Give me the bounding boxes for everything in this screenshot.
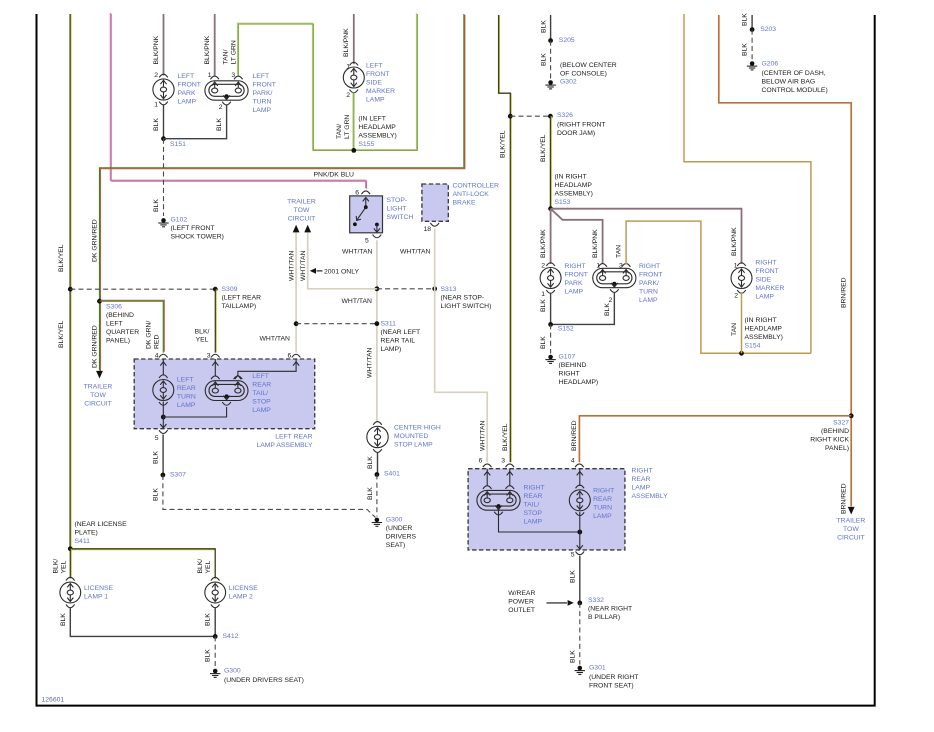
svg-text:DRIVERS: DRIVERS — [386, 533, 417, 540]
wire BLK/PNK to left front side marker pin 1 — [353, 14, 355, 64]
splice S152 dot — [548, 322, 553, 327]
svg-text:TAN: TAN — [731, 323, 738, 336]
svg-text:(UNDER DRIVERS SEAT): (UNDER DRIVERS SEAT) — [224, 677, 304, 684]
svg-text:(IN RIGHT: (IN RIGHT — [555, 173, 587, 180]
trailer tow circuit arrow left — [96, 371, 103, 379]
svg-text:PNK/DK BLU: PNK/DK BLU — [314, 172, 355, 179]
svg-text:S411: S411 — [75, 538, 91, 545]
svg-text:RIGHT: RIGHT — [632, 467, 653, 474]
svg-text:DK GRN/RED: DK GRN/RED — [92, 219, 99, 262]
svg-text:TAN/: TAN/ — [223, 49, 230, 64]
svg-text:(UNDER RIGHT: (UNDER RIGHT — [589, 674, 638, 681]
left rear lamp assembly box (dashed) — [134, 359, 315, 429]
svg-text:HEADLAMP: HEADLAMP — [358, 124, 396, 131]
svg-text:BLK/PNK: BLK/PNK — [343, 28, 350, 57]
svg-text:LICENSE: LICENSE — [229, 585, 259, 592]
wire BLK center stop lamp to S401 — [377, 452, 379, 474]
junction dot BLK/YEL S326 link — [508, 114, 513, 119]
svg-text:LAMP: LAMP — [524, 518, 543, 525]
wire WHT/TAN controller pin18 through S313 to right rear pin 6 — [435, 228, 488, 462]
svg-text:LAMP: LAMP — [755, 293, 774, 300]
svg-text:DOOR JAM): DOOR JAM) — [557, 130, 595, 137]
svg-text:FRONT: FRONT — [755, 268, 778, 275]
svg-text:POWER: POWER — [508, 599, 534, 606]
wire BLK to S203 — [751, 15, 753, 30]
svg-text:G102: G102 — [171, 216, 188, 223]
splice S332 dot — [577, 601, 582, 606]
svg-text:BLK/: BLK/ — [197, 559, 204, 574]
junction on BLK/YEL at tail feed — [68, 287, 73, 292]
svg-text:HEADLAMP): HEADLAMP) — [559, 379, 599, 386]
svg-text:RIGHT: RIGHT — [524, 484, 545, 491]
svg-text:HEADLAMP: HEADLAMP — [555, 182, 593, 189]
wire BLK right park pin 1 to S152 — [550, 293, 552, 325]
pin 4 internal wire — [162, 359, 164, 376]
svg-text:W/REAR: W/REAR — [508, 590, 535, 597]
pin 3 internal wire — [509, 469, 511, 486]
svg-text:S326: S326 — [557, 112, 573, 119]
svg-text:TRAILER: TRAILER — [837, 518, 866, 525]
lamp right rear turn lamp — [576, 485, 585, 488]
dashed BLK S307 to ground G300 route — [163, 475, 376, 518]
wire BLK from park lamp pin 1 to S151 — [163, 105, 165, 139]
svg-text:BLK: BLK — [540, 53, 547, 66]
svg-text:REAR: REAR — [177, 385, 196, 392]
svg-text:OUTLET: OUTLET — [508, 607, 535, 614]
svg-text:BELOW AIR BAG: BELOW AIR BAG — [762, 78, 816, 85]
wire BLK right front lamps to S152 — [551, 293, 615, 325]
svg-text:LAMP: LAMP — [366, 97, 385, 104]
svg-text:S313: S313 — [441, 286, 457, 293]
svg-text:BLK/YEL: BLK/YEL — [58, 320, 65, 348]
wire BLK/YEL left feed vertical — [70, 14, 72, 549]
dashed link from BLK/YEL to S309 — [70, 288, 215, 290]
svg-text:PLATE): PLATE) — [75, 530, 98, 537]
svg-text:BLK/PNK: BLK/PNK — [731, 227, 738, 256]
svg-text:ASSEMBLY): ASSEMBLY) — [358, 133, 396, 140]
svg-text:S327: S327 — [833, 419, 849, 426]
wire BLK/PNK S153 to right front park lamp pin 2 — [550, 209, 552, 264]
svg-text:FRONT: FRONT — [366, 71, 389, 78]
svg-text:ASSEMBLY): ASSEMBLY) — [745, 334, 783, 341]
svg-text:DK GRN/RED: DK GRN/RED — [92, 325, 99, 368]
wire BRN/RED S327 to right rear pin 4 — [579, 416, 851, 463]
right rear lamp assembly box (dashed) — [468, 469, 625, 550]
wire BLK/PNK S153 to right front side marker pin 1 — [551, 209, 742, 264]
wire BLK/YEL S411 to license lamp 2 — [70, 550, 215, 580]
svg-text:SHOCK TOWER): SHOCK TOWER) — [171, 233, 224, 240]
wire BLK to S205 — [550, 15, 552, 41]
svg-text:BRAKE: BRAKE — [453, 199, 477, 206]
svg-text:CENTER HIGH: CENTER HIGH — [394, 425, 441, 432]
svg-text:BLK/YEL: BLK/YEL — [58, 244, 65, 272]
pin 6 internal wire to tail/stop right filament — [238, 359, 296, 377]
svg-text:S309: S309 — [222, 286, 238, 293]
wire TAN right front park/turn pin3 run to S154 — [626, 221, 811, 353]
svg-text:(NEAR STOP-: (NEAR STOP- — [441, 294, 485, 301]
ground G206 — [750, 61, 755, 66]
pin 6 connector arc left rear assembly — [292, 354, 301, 357]
svg-text:REAR TAIL: REAR TAIL — [381, 338, 416, 345]
pin 3 connector arc left rear assembly — [211, 354, 220, 357]
svg-text:2: 2 — [346, 92, 350, 99]
svg-text:LAMP: LAMP — [178, 99, 197, 106]
wire DK GRN/RED from S306 to left rear lamp pin 4 — [101, 300, 165, 351]
svg-text:BLK: BLK — [153, 118, 160, 131]
trailer tow arrows (middle) — [293, 225, 300, 233]
dashed link to S326 — [510, 115, 550, 117]
svg-text:BLK: BLK — [153, 199, 160, 212]
svg-text:WHT/TAN: WHT/TAN — [400, 248, 431, 255]
lamp left rear tail/stop dual filament — [205, 381, 248, 401]
svg-text:REAR: REAR — [632, 476, 651, 483]
pin 4 internal wire — [579, 469, 581, 486]
wire BLK/PNK S153 to right front park/turn pin 1 — [551, 209, 603, 264]
svg-text:TURN: TURN — [593, 504, 612, 511]
junction dot WHT/TAN at dashed crossing — [375, 286, 380, 291]
svg-text:YEL: YEL — [196, 337, 209, 344]
svg-text:2: 2 — [734, 293, 738, 300]
svg-text:FRONT SEAT): FRONT SEAT) — [589, 683, 634, 690]
svg-text:PARK: PARK — [565, 280, 583, 287]
svg-text:FRONT: FRONT — [565, 271, 588, 278]
svg-text:TAILLAMP): TAILLAMP) — [222, 303, 257, 310]
svg-text:TURN: TURN — [639, 288, 658, 295]
svg-text:S311: S311 — [381, 321, 397, 328]
lamp license lamp 1 — [66, 577, 75, 580]
svg-text:MARKER: MARKER — [755, 285, 784, 292]
ground G302 — [548, 80, 553, 85]
svg-text:SIDE: SIDE — [366, 80, 382, 87]
svg-text:RIGHT: RIGHT — [559, 371, 580, 378]
internal wire junction to pin 5 — [162, 402, 164, 429]
pin 4 connector arc left rear assembly — [159, 354, 168, 357]
svg-text:BLK: BLK — [153, 451, 160, 464]
svg-text:BLK/PNK: BLK/PNK — [204, 35, 211, 64]
svg-text:TOW: TOW — [90, 392, 106, 399]
svg-text:(NEAR LEFT: (NEAR LEFT — [381, 329, 421, 336]
svg-text:BLK: BLK — [367, 487, 374, 500]
svg-text:S203: S203 — [760, 26, 776, 33]
internal wire junction to pin 5 — [579, 512, 581, 550]
svg-text:LEFT: LEFT — [252, 373, 269, 380]
junction dot below right rear turn lamp — [577, 530, 582, 535]
svg-text:LEFT: LEFT — [177, 376, 194, 383]
svg-text:SIDE: SIDE — [755, 276, 771, 283]
splice S309 dot — [213, 287, 218, 292]
svg-text:LEFT: LEFT — [253, 73, 270, 80]
junction dot below left rear turn lamp — [161, 415, 166, 420]
wire TAN/LT GRN side marker pin 2 to S155 — [352, 93, 354, 151]
internal wire tail/stop bottom to junction — [163, 407, 226, 417]
svg-text:(BEHIND: (BEHIND — [559, 362, 587, 369]
wire WHT/TAN horizontal from 2001-only branch — [308, 233, 377, 289]
svg-text:LEFT REAR: LEFT REAR — [275, 434, 312, 441]
svg-text:BLK/PNK: BLK/PNK — [592, 229, 599, 258]
dashed BLK S401 to ground G300 — [376, 475, 378, 517]
svg-text:WHT/TAN: WHT/TAN — [342, 248, 373, 255]
wire PNK/DK BLU from top to stop-light switch pin 6 — [112, 14, 367, 189]
svg-text:(LEFT FRONT: (LEFT FRONT — [171, 225, 215, 232]
pin 6 connector arc right rear assembly — [483, 464, 492, 467]
svg-text:TRAILER: TRAILER — [287, 199, 316, 206]
dashed BLK from S151 to ground G102 — [163, 139, 165, 216]
stop-light switch box — [350, 196, 383, 233]
controller anti-lock brake box (dashed) — [422, 184, 448, 221]
svg-text:2: 2 — [219, 104, 223, 111]
wire BLK license lamps to S412 — [70, 607, 215, 636]
svg-text:S412: S412 — [223, 633, 239, 640]
svg-text:LEFT: LEFT — [178, 73, 195, 80]
splice S306 dot — [97, 299, 102, 304]
pin 6 internal wire — [486, 469, 488, 486]
wire TAN top feed — [684, 14, 811, 353]
svg-text:S307: S307 — [170, 472, 186, 479]
svg-text:G300: G300 — [224, 668, 241, 675]
svg-text:FRONT: FRONT — [639, 271, 662, 278]
svg-text:REAR: REAR — [593, 496, 612, 503]
lamp center high mounted stop lamp — [373, 422, 382, 425]
ground G102 — [161, 218, 166, 223]
svg-text:6: 6 — [355, 190, 359, 197]
svg-text:MOUNTED: MOUNTED — [394, 433, 428, 440]
svg-text:HEADLAMP: HEADLAMP — [745, 326, 783, 333]
wire BLK from park/turn lamp pin 2 to S151 — [164, 105, 227, 138]
svg-text:BLK: BLK — [540, 20, 547, 33]
svg-text:STOP LAMP: STOP LAMP — [394, 442, 433, 449]
wire BLK left rear pin5 to S307 — [162, 435, 164, 476]
splice S412 dot — [213, 634, 218, 639]
svg-text:LAMP 2: LAMP 2 — [229, 593, 253, 600]
svg-text:CONTROLLER: CONTROLLER — [453, 182, 500, 189]
ground G301 — [578, 666, 583, 671]
wire BRN/RED top to S327 and trailer tow arrow — [719, 15, 851, 507]
svg-text:BLK/: BLK/ — [53, 559, 60, 574]
svg-text:WHT/TAN: WHT/TAN — [367, 347, 374, 378]
svg-text:S152: S152 — [558, 326, 574, 333]
svg-text:LAMP: LAMP — [252, 407, 271, 414]
svg-text:18: 18 — [423, 226, 431, 233]
pin 3 connector arc right rear assembly — [506, 464, 515, 467]
wire BLK/YEL from S309 to left rear pin 3 — [215, 289, 217, 352]
pin 18 connector arc controller — [430, 223, 439, 226]
svg-text:RIGHT: RIGHT — [755, 259, 776, 266]
svg-text:LAMP: LAMP — [593, 513, 612, 520]
wire DK GRN/RED main run (top right vertical, horizontal, left vertical to trailer tow arrow) — [101, 15, 465, 372]
svg-text:CIRCUIT: CIRCUIT — [837, 535, 865, 542]
svg-text:CONTROL MODULE): CONTROL MODULE) — [762, 87, 828, 94]
svg-text:LAMP: LAMP — [565, 288, 584, 295]
svg-text:B PILLAR): B PILLAR) — [588, 614, 620, 621]
ground G300 under drivers seat (center) — [375, 518, 380, 523]
svg-text:G302: G302 — [560, 79, 577, 86]
svg-text:BLK/YEL: BLK/YEL — [502, 423, 509, 451]
svg-text:3: 3 — [207, 353, 211, 360]
dashed BLK S332 to ground G301 — [579, 603, 581, 665]
svg-text:(NEAR RIGHT: (NEAR RIGHT — [588, 606, 632, 613]
svg-text:LT GRN: LT GRN — [231, 40, 238, 64]
svg-text:1: 1 — [541, 291, 545, 298]
dashed BLK S205 to G302 — [550, 41, 552, 79]
svg-text:TAIL/: TAIL/ — [524, 501, 540, 508]
wire BLK/YEL right feed with jog to right rear pin 3 — [500, 15, 512, 462]
svg-text:CIRCUIT: CIRCUIT — [288, 216, 316, 223]
splice S411 dot — [68, 546, 73, 551]
svg-text:LEFT: LEFT — [366, 63, 383, 70]
pin 5 connector arc right rear assembly — [576, 551, 585, 554]
svg-text:TRAILER: TRAILER — [84, 383, 113, 390]
splice S151 dot — [161, 136, 166, 141]
pin 4 connector arc right rear assembly — [575, 464, 584, 467]
svg-text:YEL: YEL — [61, 560, 68, 573]
splice S401 dot — [375, 472, 380, 477]
svg-text:BLK/YEL: BLK/YEL — [500, 130, 507, 158]
splice S307 dot — [161, 473, 166, 478]
svg-text:BLK: BLK — [540, 299, 547, 312]
lamp left front park lamp — [159, 74, 168, 77]
label 2001 ONLY with arrow — [310, 268, 316, 274]
svg-text:LAMP: LAMP — [177, 402, 196, 409]
svg-text:LAMP: LAMP — [253, 107, 272, 114]
svg-text:PANEL): PANEL) — [825, 445, 849, 452]
svg-text:BLK: BLK — [153, 488, 160, 501]
svg-text:S306: S306 — [106, 303, 122, 310]
svg-text:LT GRN: LT GRN — [344, 115, 351, 139]
svg-text:5: 5 — [155, 435, 159, 442]
svg-text:(NEAR LICENSE: (NEAR LICENSE — [75, 521, 128, 528]
svg-text:CIRCUIT: CIRCUIT — [84, 400, 112, 407]
wire BLK/YEL S326 to S153 — [550, 116, 552, 209]
svg-text:STOP: STOP — [252, 398, 271, 405]
svg-text:S332: S332 — [588, 597, 604, 604]
svg-text:LAMP ASSEMBLY: LAMP ASSEMBLY — [256, 442, 313, 449]
svg-text:LICENSE: LICENSE — [84, 585, 114, 592]
wire BLK/PNK to left front park/turn lamp pin 1 — [214, 14, 216, 76]
svg-text:LAMP): LAMP) — [381, 346, 402, 353]
dashed BLK S412 to ground G300 — [214, 636, 216, 667]
svg-text:YEL: YEL — [205, 560, 212, 573]
pin 5 connector arc stop-light switch — [373, 235, 382, 238]
svg-text:TURN: TURN — [177, 393, 196, 400]
junction dot on left trailer branch at S311 link — [294, 321, 299, 326]
stop-light switch internal contacts — [365, 198, 367, 207]
svg-text:BLK/PNK: BLK/PNK — [540, 229, 547, 258]
splice S327 dot — [849, 413, 854, 418]
svg-text:G301: G301 — [589, 665, 606, 672]
svg-text:TOW: TOW — [843, 526, 859, 533]
pin 5 connector arc left rear assembly — [159, 430, 168, 433]
svg-text:S205: S205 — [559, 37, 575, 44]
svg-text:MARKER: MARKER — [366, 88, 395, 95]
svg-text:BRN/RED: BRN/RED — [841, 277, 848, 308]
svg-text:G300: G300 — [386, 516, 403, 523]
svg-text:WHT/TAN: WHT/TAN — [300, 250, 307, 281]
svg-text:ANTI-LOCK: ANTI-LOCK — [453, 191, 490, 198]
splice S311 dot — [375, 321, 380, 326]
lamp license lamp 2 — [211, 577, 220, 580]
svg-text:2001 ONLY: 2001 ONLY — [324, 268, 359, 275]
svg-text:LIGHT: LIGHT — [387, 206, 407, 213]
svg-text:BLK: BLK — [540, 336, 547, 349]
svg-text:BLK/YEL: BLK/YEL — [540, 134, 547, 162]
svg-text:S154: S154 — [745, 343, 761, 350]
wire BLK/YEL S411 to license lamp 1 — [70, 549, 72, 579]
svg-text:(BELOW CENTER: (BELOW CENTER — [560, 62, 617, 69]
svg-text:S151: S151 — [170, 141, 186, 148]
svg-text:BLK: BLK — [60, 613, 67, 626]
ground G300 under drivers seat (left) — [213, 669, 218, 674]
svg-text:DK GRN/: DK GRN/ — [146, 321, 153, 349]
svg-text:G107: G107 — [559, 354, 576, 361]
lamp right front park/turn dual filament — [593, 268, 636, 287]
svg-text:TAIL/: TAIL/ — [252, 390, 268, 397]
svg-text:126601: 126601 — [42, 697, 65, 704]
lamp right front side marker — [737, 263, 746, 266]
svg-text:4: 4 — [571, 457, 575, 464]
svg-text:S401: S401 — [384, 471, 400, 478]
dashed BLK S152 to G107 — [550, 324, 552, 353]
lamp left front park/turn dual filament — [205, 81, 248, 100]
svg-text:OF CONSOLE): OF CONSOLE) — [560, 70, 607, 77]
svg-text:(IN LEFT: (IN LEFT — [358, 116, 386, 123]
svg-text:PARK/: PARK/ — [253, 90, 273, 97]
svg-text:WHT/TAN: WHT/TAN — [479, 420, 486, 451]
svg-text:BLK: BLK — [216, 118, 223, 131]
pin 3 internal wire — [214, 359, 216, 376]
svg-text:BLK: BLK — [604, 303, 611, 316]
svg-text:PARK: PARK — [178, 90, 196, 97]
svg-text:2: 2 — [541, 263, 545, 270]
splice S155 dot — [351, 148, 356, 153]
svg-text:RIGHT: RIGHT — [639, 263, 660, 270]
internal wire tail/stop to junction — [499, 507, 580, 532]
svg-text:PARK/: PARK/ — [639, 280, 659, 287]
svg-text:WHT/TAN: WHT/TAN — [260, 336, 291, 343]
svg-text:(BEHIND: (BEHIND — [821, 428, 849, 435]
svg-text:2: 2 — [154, 72, 158, 79]
svg-text:(UNDER: (UNDER — [386, 525, 413, 532]
svg-text:BLK: BLK — [367, 456, 374, 469]
lamp left rear turn lamp — [159, 375, 168, 378]
svg-text:LAMP: LAMP — [639, 297, 658, 304]
splice S154 dot — [739, 351, 744, 356]
svg-text:QUARTER: QUARTER — [106, 329, 139, 336]
wire BLK right rear pin5 to S332 — [579, 556, 581, 603]
svg-text:BLK/PNK: BLK/PNK — [153, 35, 160, 64]
svg-text:SEAT): SEAT) — [386, 542, 406, 549]
splice S203 dot — [750, 27, 755, 32]
svg-text:LAMP 1: LAMP 1 — [84, 593, 108, 600]
svg-text:ASSEMBLY: ASSEMBLY — [632, 493, 669, 500]
lamp right rear tail/stop dual filament — [477, 490, 520, 510]
svg-text:S155: S155 — [358, 141, 374, 148]
svg-text:G206: G206 — [762, 60, 779, 67]
wire TAN side marker pin2 to S154 — [741, 292, 743, 353]
svg-text:(IN RIGHT: (IN RIGHT — [745, 317, 777, 324]
svg-text:STOP-: STOP- — [387, 197, 408, 204]
trailer tow arrow right — [848, 507, 855, 515]
svg-text:REAR: REAR — [252, 381, 271, 388]
svg-text:BLK: BLK — [205, 649, 212, 662]
svg-text:5: 5 — [571, 551, 575, 558]
svg-text:(RIGHT FRONT: (RIGHT FRONT — [557, 122, 606, 129]
svg-text:TAN/: TAN/ — [336, 124, 343, 139]
svg-text:SWITCH: SWITCH — [387, 214, 414, 221]
svg-text:LAMP: LAMP — [632, 484, 651, 491]
splice S153 dot — [548, 206, 553, 211]
svg-text:6: 6 — [479, 457, 483, 464]
dashed link to S311 — [296, 323, 377, 325]
